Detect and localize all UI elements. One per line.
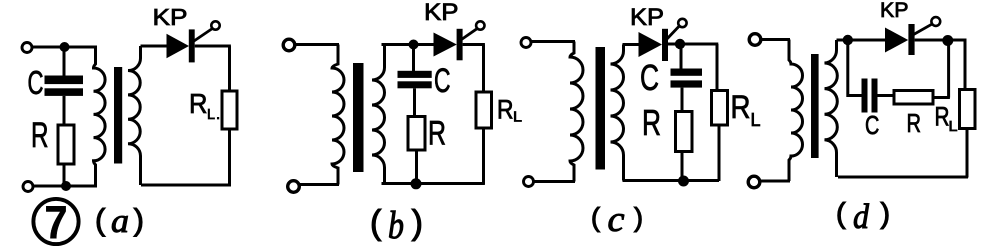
svg-text:a: a [111,203,129,240]
svg-text:L: L [513,109,522,126]
svg-text:): ) [880,198,890,230]
svg-text:R: R [642,102,661,143]
svg-text:L: L [207,106,215,123]
svg-text:KP: KP [424,0,459,26]
svg-text:): ) [634,203,643,233]
svg-text:R: R [731,89,751,125]
svg-text:(: ( [370,204,382,242]
svg-text:7: 7 [45,196,68,248]
svg-text:R: R [907,108,922,138]
svg-text:L: L [949,118,958,135]
svg-text:C: C [28,64,44,101]
svg-text:R: R [428,115,446,153]
svg-text:): ) [134,202,144,237]
svg-text:L: L [751,110,761,130]
svg-text:KP: KP [630,4,664,31]
svg-text:c: c [608,199,625,239]
svg-text:.: . [216,106,220,123]
svg-text:R: R [189,88,208,119]
svg-text:KP: KP [880,0,909,22]
svg-text:d: d [853,197,869,236]
svg-text:(: ( [836,198,846,230]
svg-text:R: R [31,116,49,155]
svg-text:): ) [412,204,423,242]
svg-text:(: ( [95,202,106,237]
svg-text:(: ( [591,203,600,233]
svg-text:C: C [865,110,879,140]
svg-text:R: R [497,95,514,125]
svg-text:KP: KP [153,4,188,30]
svg-text:R: R [935,102,950,132]
svg-text:b: b [388,204,404,247]
svg-text:C: C [640,57,659,98]
svg-text:C: C [434,62,451,100]
